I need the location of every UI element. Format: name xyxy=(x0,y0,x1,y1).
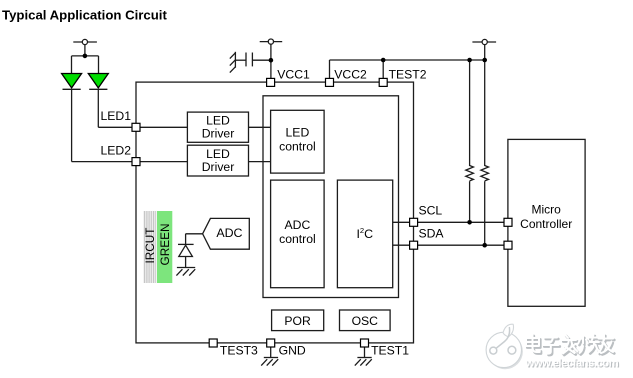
svg-text:LED1: LED1 xyxy=(101,109,132,123)
svg-text:www.elecfans.com: www.elecfans.com xyxy=(525,357,619,369)
svg-text:ADC: ADC xyxy=(285,218,311,232)
svg-text:ADC: ADC xyxy=(216,226,242,240)
svg-text:VCC2: VCC2 xyxy=(334,68,367,82)
svg-text:LED: LED xyxy=(206,114,230,128)
svg-text:TEST2: TEST2 xyxy=(389,68,427,82)
svg-text:Micro: Micro xyxy=(532,202,562,216)
svg-text:OSC: OSC xyxy=(352,314,379,328)
svg-text:LED: LED xyxy=(206,147,230,161)
svg-text:VCC1: VCC1 xyxy=(277,68,310,82)
svg-text:SDA: SDA xyxy=(419,226,445,240)
svg-text:Driver: Driver xyxy=(202,127,235,141)
svg-text:I2C: I2C xyxy=(356,226,373,241)
svg-text:LED: LED xyxy=(286,125,310,139)
svg-text:control: control xyxy=(279,232,316,246)
svg-text:GREEN: GREEN xyxy=(158,224,172,266)
svg-text:Driver: Driver xyxy=(202,160,235,174)
svg-text:Typical Application Circuit: Typical Application Circuit xyxy=(2,7,167,22)
svg-text:GND: GND xyxy=(279,343,306,357)
svg-text:POR: POR xyxy=(284,314,311,328)
svg-text:SCL: SCL xyxy=(419,204,443,218)
svg-text:control: control xyxy=(279,139,316,153)
svg-text:LED2: LED2 xyxy=(101,143,132,157)
svg-text:Controller: Controller xyxy=(520,217,572,231)
svg-text:IRCUT: IRCUT xyxy=(143,227,157,263)
svg-text:TEST1: TEST1 xyxy=(371,343,409,357)
svg-text:TEST3: TEST3 xyxy=(220,343,258,357)
